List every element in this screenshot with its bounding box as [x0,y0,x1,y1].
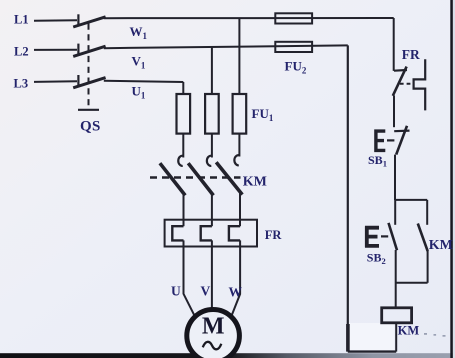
FR heater element 3 [229,226,240,240]
contactor KM main contact 2 terminal hook [207,156,212,166]
svg-text:V: V [201,284,211,299]
FR heater element 1 [172,226,183,240]
button SB1 actuator E symbol [374,130,385,152]
wire control right leg from W1 line [393,18,395,71]
wire drop from W1 line to FU1 fuse 3 [238,18,240,94]
svg-text:FR: FR [265,228,283,242]
button SB2 actuator E symbol [365,226,379,247]
wire drop from V1 line to FU1 fuse 2 [211,47,213,94]
FR contact linkage dash [400,83,414,85]
svg-text:QS: QS [80,119,101,135]
QS pole 1 fixed contact tick [77,14,79,26]
svg-text:KM: KM [429,238,453,253]
contactor KM main contact 3 blade [216,162,242,194]
wire KM contact 3 to FR element 3 [239,194,241,227]
fuse FU1 element 1 [177,94,191,134]
QS pole 2 fixed contact tick [77,44,79,56]
wire control left leg lower thick segment [346,324,350,352]
wire L1 incoming [34,19,77,22]
button SB1 (NC stop) blade [396,126,407,155]
button SB2 (NO start) blade [389,223,398,250]
wire KM coil to bottom [395,323,397,352]
motor M1 body [187,310,240,358]
svg-text:U: U [171,284,181,299]
wire bottom return [348,350,396,352]
wire FR element 1 to motor terminal U [184,240,195,315]
svg-text:FR: FR [402,47,420,62]
contactor KM main contact 1 blade [160,163,185,195]
wire W1 line [104,17,394,19]
wire FU1 fuse 2 to KM contact 2 [211,134,213,158]
motor AC tilde symbol [203,342,222,349]
svg-text:KM: KM [398,324,420,338]
svg-text:M: M [202,314,225,340]
KM main contacts mechanical linkage (dashed) [150,176,241,179]
QS mechanical linkage (dashed) [88,24,90,108]
wire KM contact 1 to FR element 1 [183,194,185,226]
wire V1 line [104,45,348,48]
FR thermal function symbol [414,59,426,110]
wire L2 incoming [34,49,77,51]
fuse FU1 element 3 [233,94,247,134]
wire KM aux upper [426,200,428,225]
SB2 actuator link dash [381,235,388,237]
button SB1 (NC stop) fixed tick [394,130,409,133]
contactor KM main contact 3 terminal hook [234,155,239,165]
faint artifact dots near coil label [424,333,446,337]
wire SB2 to KM coil [395,250,397,308]
QS pole 3 blade [73,78,105,88]
svg-text:L1: L1 [14,12,29,26]
wire FR element 3 to motor terminal W [232,240,240,315]
fuse FU2 lower element [275,42,312,52]
wire KM aux lower [427,251,429,283]
svg-text:L3: L3 [14,76,29,90]
fuse FU1 element 2 [205,94,219,134]
wire U1 line [104,81,184,82]
svg-text:KM: KM [243,175,267,190]
wire KM aux return to node B [396,282,428,284]
SB1 actuator link dash [387,139,394,141]
QS bottom bar [78,109,99,111]
fuse FU2 upper element [275,13,312,23]
svg-text:W: W [229,284,243,299]
coil KM [382,308,412,323]
QS pole 1 blade [73,17,105,27]
wire KM contact 2 to FR element 2 [211,195,213,227]
wire junction A to KM aux branch [395,199,427,201]
contactor KM auxiliary contact blade [418,224,428,252]
wire L3 incoming [34,80,77,83]
svg-text:L2: L2 [14,45,29,59]
thermal relay FR box [165,220,257,247]
contactor KM main contact 2 blade [188,163,213,195]
contactor KM main contact 1 terminal hook [178,156,183,166]
wire FU1 fuse 1 to KM contact 1 [182,134,184,158]
wire FR contact to SB1 [393,96,395,128]
wire SB1 to junction A [394,155,396,200]
relay contact FR (NC) fixed tick [394,69,407,72]
relay contact FR (NC) blade [393,67,407,96]
FR heater element 2 [201,226,212,240]
wire SB2 upper terminal [394,200,396,225]
wire drop from U1 line to FU1 fuse 1 [182,82,184,94]
wire FU1 fuse 3 to KM contact 3 [238,134,240,157]
wire FR element 2 to motor terminal V [211,240,213,309]
QS pole 2 blade [73,46,105,56]
QS pole 3 fixed contact tick [77,75,79,87]
wire control left leg from V1 line [347,45,349,351]
